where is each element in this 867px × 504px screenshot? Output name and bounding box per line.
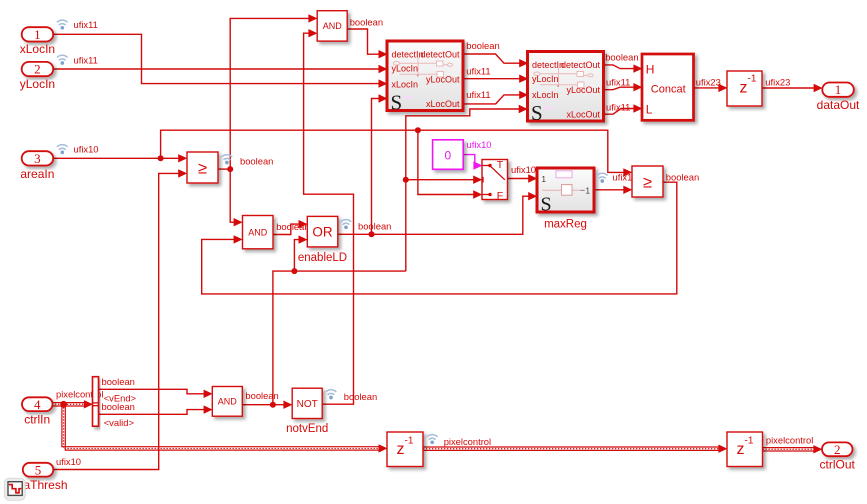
svg-text:0: 0 xyxy=(445,148,452,162)
relational operator relop2 xyxy=(632,166,663,197)
wireless logging badge port3 xyxy=(57,145,68,155)
svg-text:xLocIn: xLocIn xyxy=(532,90,559,100)
svg-text:xLocIn: xLocIn xyxy=(392,79,419,89)
wireless logging badge port2 xyxy=(57,55,68,65)
svg-text:areaIn: areaIn xyxy=(20,167,54,181)
svg-text:F: F xyxy=(497,190,503,202)
wire busselector out1 to AND3 in1 xyxy=(99,389,205,394)
wire SS2.yLocOut to Concat in2 xyxy=(604,87,635,90)
svg-text:detectOut: detectOut xyxy=(420,49,460,59)
SS1 content preview xyxy=(393,58,452,78)
wireless logging badge maxReg xyxy=(597,173,608,183)
svg-text:ufix23: ufix23 xyxy=(696,76,721,87)
wire xLocIn port1 to SS1.xLocIn xyxy=(53,34,379,83)
wireless logging badge port1 xyxy=(57,20,68,30)
wire areaIn rail to relop2 in1 xyxy=(418,130,624,172)
wire switch out to maxReg in1 xyxy=(508,178,529,180)
subsystem SS2 findLocation2 xyxy=(528,52,604,125)
svg-text:z: z xyxy=(737,441,745,458)
wire areaIn port3 to relop1 in1 xyxy=(53,157,179,159)
wireless logging badge relop1 xyxy=(222,155,233,165)
wire yLocIn port2 to SS1.yLocIn xyxy=(53,68,379,70)
svg-text:xLocOut: xLocOut xyxy=(426,99,460,109)
delay block z-1 bottom left ctrl path xyxy=(387,432,423,467)
svg-text:z: z xyxy=(397,441,405,458)
svg-text:1: 1 xyxy=(34,27,41,42)
svg-text:-1: -1 xyxy=(745,436,754,447)
svg-text:boolean: boolean xyxy=(605,51,638,62)
svg-text:ufix11: ufix11 xyxy=(606,102,630,113)
svg-text:ufix10: ufix10 xyxy=(511,164,536,175)
svg-text:ufix11: ufix11 xyxy=(74,19,98,30)
junction node rail to OR in2 xyxy=(291,268,297,274)
svg-text:yLocIn: yLocIn xyxy=(392,63,419,73)
wire rail up x405.8 to SS2 enable xyxy=(406,109,520,271)
wire delay3 out to dataOut port xyxy=(762,87,814,89)
wire maxReg out to relop2 in2 xyxy=(594,189,624,191)
inport 5 aThresh xyxy=(23,462,68,492)
svg-text:yLocIn: yLocIn xyxy=(20,77,55,91)
wire SS1.yLocOut to SS2.yLocIn xyxy=(463,78,520,80)
svg-text:detectIn: detectIn xyxy=(392,49,424,59)
relational operator relop1 xyxy=(187,152,218,183)
wire AND1 out to SS1.detectIn xyxy=(347,29,379,54)
wire enableLD branch up to SS1 enable xyxy=(372,99,379,235)
svg-text:1: 1 xyxy=(835,82,842,97)
svg-text:S: S xyxy=(541,194,552,216)
svg-text:Concat: Concat xyxy=(651,83,686,95)
svg-text:aThresh: aThresh xyxy=(23,478,67,492)
logical operator OR enableLD xyxy=(298,216,347,263)
wire SS2.xLocOut to Concat L xyxy=(604,109,635,115)
bus wire delay2 out to ctrlOut port2 xyxy=(763,448,815,451)
svg-text:ufix11: ufix11 xyxy=(74,54,98,65)
inport 1 xLocIn xyxy=(20,27,55,56)
inport 4 ctrlIn xyxy=(22,397,53,427)
wire OR out enableLD to maxReg in2 xyxy=(338,196,529,234)
svg-text:H: H xyxy=(646,62,655,76)
wire relop1 out up to AND1 in1 xyxy=(230,18,309,169)
svg-text:AND: AND xyxy=(218,397,238,407)
wire constant0 magenta to switch T xyxy=(463,155,475,166)
svg-text:detectIn: detectIn xyxy=(532,60,564,70)
svg-text:ctrlIn: ctrlIn xyxy=(24,412,50,426)
wireless logging badge delay1 xyxy=(427,435,438,445)
svg-text:enableLD: enableLD xyxy=(298,252,347,264)
switch block xyxy=(482,159,508,202)
delay block z-1 top dataOut path xyxy=(727,71,762,106)
logical operator AND2 xyxy=(243,216,274,249)
arrowheads into blocks xyxy=(84,14,823,453)
wireless logging badge OR xyxy=(341,220,352,230)
svg-text:T: T xyxy=(497,159,504,171)
wire SS1.detectOut to SS2.detectIn xyxy=(463,54,520,63)
svg-text:boolean: boolean xyxy=(102,376,135,387)
svg-text:2: 2 xyxy=(34,62,41,77)
wire areaIn branch up to horizontal rail y130 xyxy=(161,130,418,158)
junction node areaIn to switch F xyxy=(415,127,421,133)
svg-text:≥: ≥ xyxy=(643,174,652,192)
wire busselector out2 to AND3 in2 xyxy=(99,410,205,415)
svg-text:-1: -1 xyxy=(748,74,757,85)
svg-text:2: 2 xyxy=(834,442,841,457)
arrowhead magenta into switch T xyxy=(473,161,482,169)
svg-text:boolean: boolean xyxy=(245,390,278,401)
junction node areaIn branch xyxy=(158,155,164,161)
svg-text:<valid>: <valid> xyxy=(104,417,135,428)
svg-text:ufix10: ufix10 xyxy=(56,456,81,467)
svg-text:L: L xyxy=(646,102,653,116)
svg-text:boolean: boolean xyxy=(666,171,699,182)
outport 1 dataOut xyxy=(817,82,860,112)
svg-text:xLocIn: xLocIn xyxy=(20,42,55,56)
svg-text:-1: -1 xyxy=(405,436,414,447)
wireless logging badge NOT xyxy=(326,390,337,400)
concat block xyxy=(642,54,694,120)
svg-text:AND: AND xyxy=(248,227,268,237)
svg-text:1: 1 xyxy=(586,186,591,195)
svg-text:OR: OR xyxy=(312,224,333,239)
junction node AND3 out xyxy=(270,402,276,408)
logical operator NOT notvEnd xyxy=(286,388,328,435)
wire NOT out feedback up-left to AND1 in2 xyxy=(304,33,354,404)
junction node enableLD to SS1 enable xyxy=(369,231,375,237)
svg-text:boolean: boolean xyxy=(358,220,391,231)
junction node rail to switch control xyxy=(403,177,409,183)
svg-text:yLocOut: yLocOut xyxy=(426,75,460,85)
sample time legend badge xyxy=(4,478,25,500)
inport 2 yLocIn xyxy=(20,62,55,91)
subsystem SS1 findLocation xyxy=(387,41,463,114)
svg-text:z: z xyxy=(740,80,748,97)
wire AND2 out to OR in1 xyxy=(273,224,299,234)
signal datatype labels xyxy=(56,16,813,467)
svg-text:pixelcontrol: pixelcontrol xyxy=(444,436,491,447)
svg-text:NOT: NOT xyxy=(297,399,318,410)
wire branch to switch control xyxy=(406,179,474,181)
wire aThresh port5 up to relop1 in2 xyxy=(53,173,179,469)
wire areaIn branch down to switch F input xyxy=(418,130,474,194)
wire AND3 out to NOT in xyxy=(242,404,284,406)
svg-text:boolean: boolean xyxy=(276,221,309,232)
wire AND3 out branch up to rail y271 xyxy=(273,271,406,405)
svg-text:S: S xyxy=(531,101,543,125)
svg-text:boolean: boolean xyxy=(240,156,273,167)
svg-text:5: 5 xyxy=(35,462,42,477)
svg-text:ctrlOut: ctrlOut xyxy=(820,457,856,471)
logical operator AND1 xyxy=(317,11,347,41)
wire SS2.detectOut to Concat H xyxy=(604,65,635,69)
svg-text:boolean: boolean xyxy=(102,401,135,412)
svg-text:pixelcontrol: pixelcontrol xyxy=(766,435,813,446)
svg-text:yLocIn: yLocIn xyxy=(532,74,559,84)
junction node ctrlIn bus branch xyxy=(60,401,67,408)
svg-text:ufix10: ufix10 xyxy=(467,139,492,150)
svg-text:boolean: boolean xyxy=(350,16,383,27)
constant 0 block xyxy=(433,140,464,170)
svg-text:ufix11: ufix11 xyxy=(466,66,490,77)
outport 2 ctrlOut xyxy=(820,442,856,471)
svg-text:≥: ≥ xyxy=(198,160,207,178)
svg-text:boolean: boolean xyxy=(466,40,499,51)
svg-text:AND: AND xyxy=(323,21,343,31)
SS2 content preview xyxy=(534,68,593,88)
svg-text:dataOut: dataOut xyxy=(817,98,860,112)
svg-text:ufix11: ufix11 xyxy=(606,76,630,87)
svg-text:maxReg: maxReg xyxy=(544,219,587,231)
wire relop1 out down to AND2 in1 xyxy=(230,169,234,222)
wire relop2 out feedback to AND2 in2 xyxy=(202,182,677,294)
bus wire ctrlIn port4 to busselector xyxy=(52,403,85,406)
svg-text:detectOut: detectOut xyxy=(561,60,601,70)
svg-text:notvEnd: notvEnd xyxy=(286,423,328,435)
bus wire ctrlIn branch down to delay1 xyxy=(62,404,379,450)
svg-text:yLocOut: yLocOut xyxy=(566,85,600,95)
logical operator AND3 xyxy=(212,387,242,417)
svg-text:ufix11: ufix11 xyxy=(466,89,490,100)
svg-text:xLocOut: xLocOut xyxy=(566,109,600,119)
svg-text:4: 4 xyxy=(34,397,41,412)
svg-text:S: S xyxy=(391,90,403,114)
subsystem maxReg xyxy=(537,168,594,231)
bus wire delay1 out to delay2 xyxy=(423,447,719,450)
junction node relop1 out xyxy=(227,166,233,172)
svg-text:boolean: boolean xyxy=(344,391,377,402)
wire rail y271 branch up to OR in2 xyxy=(294,240,299,272)
svg-text:ufix10: ufix10 xyxy=(74,144,99,155)
wire relop1 out to junction xyxy=(218,168,230,170)
svg-text:1: 1 xyxy=(542,175,547,184)
wire Concat out to delay3 xyxy=(694,87,720,89)
delay block z-1 bottom right ctrl path xyxy=(727,432,763,467)
inport 3 areaIn xyxy=(20,151,54,181)
svg-text:3: 3 xyxy=(34,151,41,166)
bus selector xyxy=(93,377,99,427)
svg-text:ufix23: ufix23 xyxy=(765,76,790,87)
wire SS1.xLocOut to SS2.xLocIn xyxy=(463,95,520,104)
